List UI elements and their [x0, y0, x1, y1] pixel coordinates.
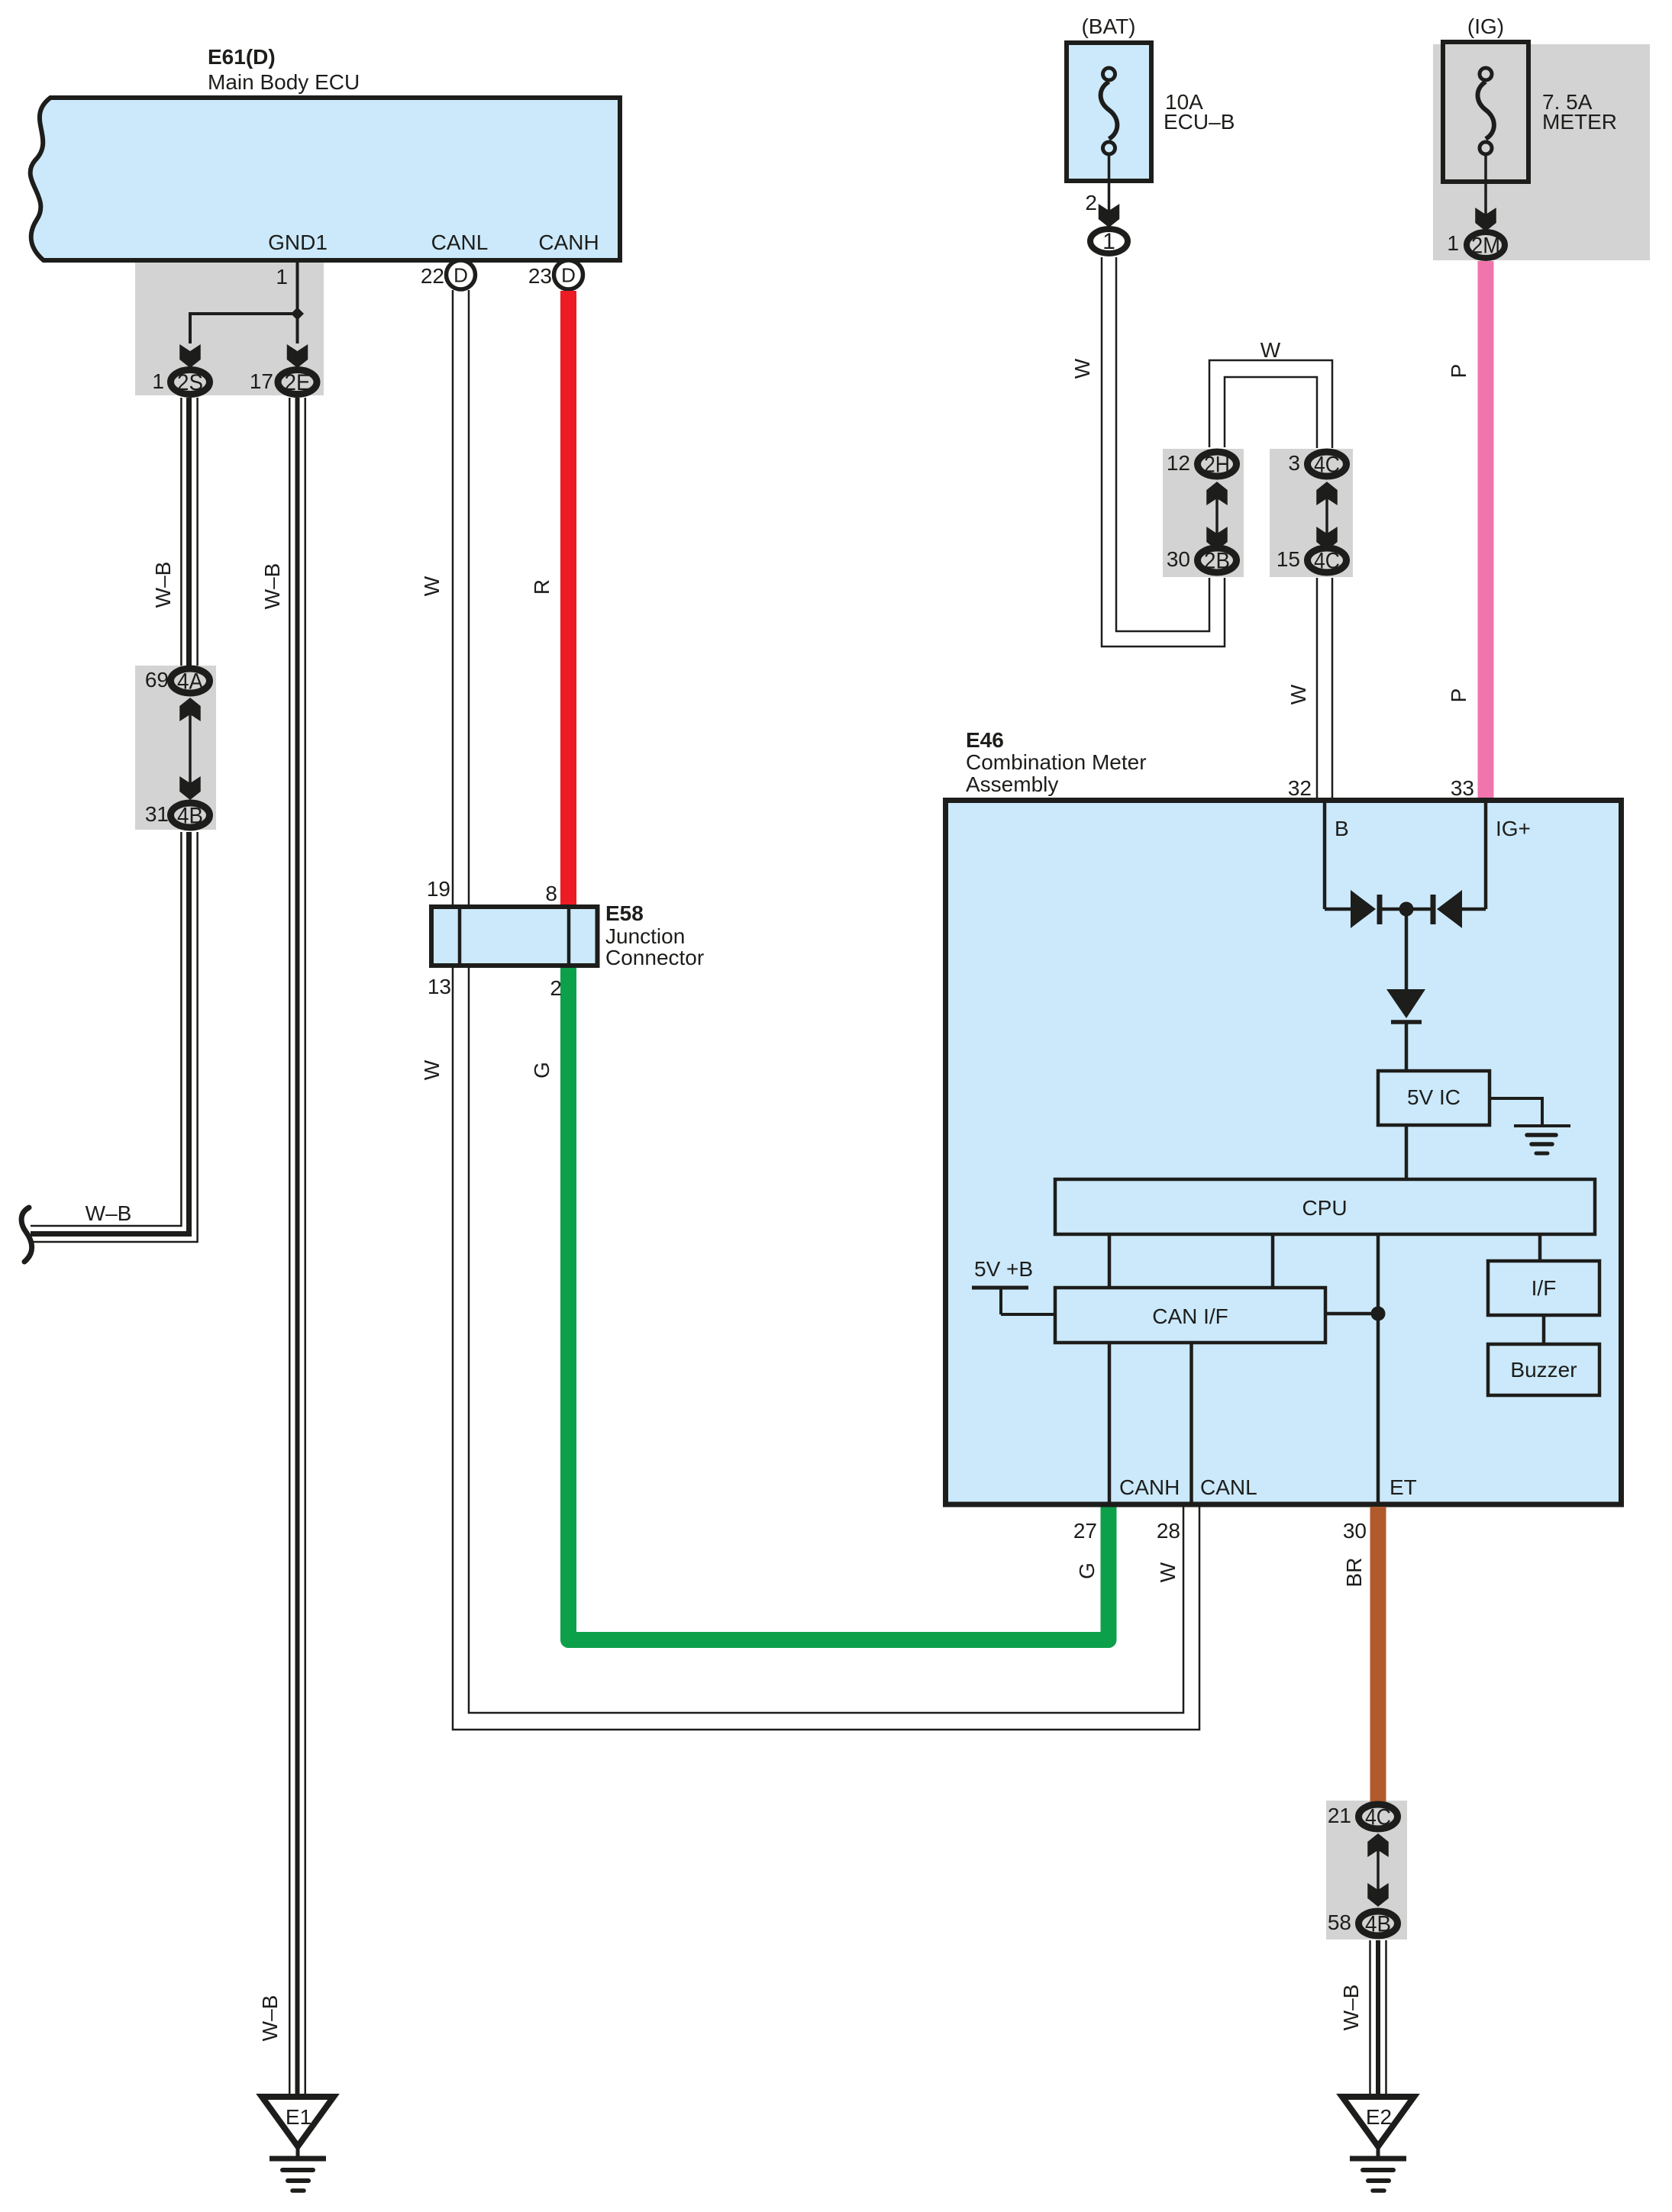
arrow down into 4B [179, 776, 201, 800]
arrow into connector 1 [1099, 204, 1120, 227]
svg-text:W: W [1156, 1562, 1180, 1582]
connector oval 2M [1467, 232, 1505, 258]
shield gray box under GND1 (2S/2E) [135, 260, 324, 395]
svg-text:33: 33 [1451, 776, 1474, 800]
arrow up into 2H [1206, 482, 1228, 505]
svg-text:R: R [530, 579, 554, 595]
svg-text:ECU–B: ECU–B [1164, 110, 1235, 134]
svg-text:1: 1 [1102, 229, 1115, 254]
E46 box [946, 801, 1622, 1505]
arrow into connector 2M [1475, 208, 1496, 231]
svg-text:B: B [1335, 817, 1349, 840]
svg-text:E61(D): E61(D) [208, 45, 276, 69]
svg-text:4C: 4C [1365, 1805, 1391, 1830]
svg-text:4A: 4A [177, 669, 203, 695]
diode D2 (from IG+) [1437, 890, 1462, 928]
svg-text:W: W [1260, 338, 1281, 362]
svg-text:27: 27 [1073, 1519, 1097, 1543]
wire G from E58 to pin 27 [569, 966, 1109, 1640]
svg-text:19: 19 [427, 877, 450, 901]
svg-text:P: P [1447, 688, 1470, 703]
CAN I/F box [1055, 1288, 1325, 1343]
fuse METER element [1478, 82, 1494, 139]
svg-text:30: 30 [1343, 1519, 1367, 1543]
wire W CANL from pin 22 to pin 28 [453, 290, 1199, 1730]
CPU box [1055, 1179, 1595, 1234]
arrow down into 2B [1206, 527, 1228, 550]
svg-text:W: W [1286, 684, 1310, 705]
svg-text:13: 13 [428, 975, 451, 998]
block E61(D) Main Body ECU [31, 98, 620, 260]
svg-text:G: G [530, 1062, 554, 1079]
svg-text:CANL: CANL [1200, 1475, 1257, 1499]
svg-text:ET: ET [1390, 1475, 1417, 1499]
junction dot on ET line [1371, 1307, 1386, 1321]
wire W-B from 2E to ground E1 [289, 398, 305, 2097]
wire 5V IC to CPU [1405, 1125, 1409, 1179]
svg-text:5V IC: 5V IC [1407, 1085, 1461, 1109]
wire W-B from 4B to ground E2 [1370, 1940, 1386, 2097]
arrow into 2S [179, 344, 201, 368]
wire CAN I/F to ET line [1325, 1312, 1378, 1316]
svg-text:22: 22 [421, 264, 444, 288]
svg-text:D: D [561, 264, 576, 287]
wire P from 2M to pin 33 [1478, 261, 1494, 803]
svg-text:W–B: W–B [260, 563, 284, 610]
svg-text:15: 15 [1277, 547, 1300, 571]
wire CANH internal [1108, 1343, 1112, 1504]
wire between 4C and 4C [1325, 498, 1328, 534]
arrow up into 4C [1367, 1833, 1389, 1857]
svg-text:5V +B: 5V +B [974, 1257, 1033, 1281]
wire W-B from 2S to 4A [181, 398, 197, 666]
shield gray box 2H/2B pair [1163, 449, 1244, 577]
svg-text:I/F: I/F [1532, 1276, 1557, 1300]
svg-text:4B: 4B [1365, 1912, 1391, 1937]
junction dot [1399, 902, 1414, 917]
svg-text:BR: BR [1342, 1558, 1366, 1588]
svg-text:31: 31 [145, 802, 169, 826]
svg-text:1: 1 [276, 265, 288, 289]
svg-text:30: 30 [1167, 547, 1190, 571]
svg-text:Combination Meter: Combination Meter [966, 750, 1147, 774]
wire to diode D3 [1405, 909, 1409, 989]
Buzzer box [1488, 1344, 1599, 1395]
wire 5V IC to internal ground [1490, 1098, 1542, 1124]
svg-text:W–B: W–B [151, 562, 175, 608]
svg-text:2E: 2E [285, 370, 311, 395]
svg-text:W: W [1070, 358, 1094, 379]
shield gray box IG fuse area [1433, 44, 1650, 260]
svg-text:2: 2 [1085, 191, 1097, 214]
pin 2 of fuse ECU-B [1108, 154, 1111, 226]
svg-text:3: 3 [1288, 451, 1300, 475]
wire I/F to Buzzer [1542, 1315, 1546, 1344]
connector oval 2E [278, 370, 317, 395]
svg-text:IG+: IG+ [1496, 817, 1531, 840]
svg-text:1: 1 [152, 369, 164, 393]
svg-text:32: 32 [1288, 776, 1312, 800]
svg-text:W–B: W–B [86, 1201, 132, 1225]
pin 22 CANL connector D [447, 260, 476, 289]
svg-text:D: D [454, 264, 468, 287]
svg-text:CAN I/F: CAN I/F [1152, 1304, 1228, 1328]
connector pair 4A/4B [171, 669, 210, 693]
svg-text:21: 21 [1328, 1804, 1351, 1827]
wire R CANH from pin 23 to E58 [560, 291, 576, 909]
svg-text:CANL: CANL [431, 231, 489, 254]
svg-text:W–B: W–B [258, 1995, 282, 2042]
arrow up into 4C [1316, 482, 1338, 505]
arrow down into 4C [1316, 527, 1338, 550]
svg-text:58: 58 [1328, 1911, 1351, 1934]
svg-text:28: 28 [1157, 1519, 1180, 1543]
arrow up into 4A [179, 698, 201, 721]
svg-text:METER: METER [1542, 110, 1617, 134]
connector oval 1 [1090, 229, 1128, 253]
svg-text:Assembly: Assembly [966, 772, 1058, 796]
wire to 5V IC [1405, 1024, 1409, 1071]
svg-text:2S: 2S [177, 370, 203, 395]
wire W from 4C to pin 32 [1317, 578, 1332, 803]
wire CPU to I/F [1538, 1234, 1542, 1261]
shield gray box 4C/4B pair bottom [1326, 1801, 1407, 1940]
svg-text:(IG): (IG) [1467, 15, 1504, 38]
I/F box [1488, 1261, 1599, 1315]
wire W from fuse ECU-B to 2B [1102, 257, 1225, 647]
ground E1 [262, 2097, 334, 2146]
svg-text:2H: 2H [1204, 453, 1230, 478]
svg-text:Buzzer: Buzzer [1510, 1358, 1577, 1382]
svg-text:Connector: Connector [605, 946, 704, 969]
svg-text:12: 12 [1167, 451, 1190, 475]
node B pin 32 [1323, 803, 1327, 909]
wire between 4C and 4B [1377, 1850, 1380, 1890]
svg-text:W: W [420, 576, 444, 596]
svg-text:CPU: CPU [1302, 1196, 1347, 1220]
svg-text:17: 17 [250, 369, 273, 393]
arrow into 2E [287, 344, 308, 368]
svg-text:69: 69 [145, 668, 169, 692]
svg-text:2: 2 [550, 976, 562, 1000]
wire BR from pin 30 to 4C [1370, 1507, 1386, 1803]
shield gray box 4C/4C pair [1270, 449, 1353, 577]
svg-text:CANH: CANH [1119, 1475, 1180, 1499]
connector oval 2S [171, 370, 210, 395]
connector pair 4C/4B bottom [1359, 1804, 1398, 1829]
svg-text:E46: E46 [966, 728, 1004, 752]
wire between 4A and 4B [189, 714, 192, 783]
svg-text:4C: 4C [1314, 453, 1340, 478]
svg-text:2B: 2B [1204, 549, 1230, 574]
svg-text:E58: E58 [605, 901, 644, 925]
svg-text:2M: 2M [1471, 234, 1500, 259]
harness break symbol [21, 1208, 32, 1262]
wire between 2H and 2B [1215, 498, 1218, 534]
svg-text:E2: E2 [1366, 2105, 1392, 2129]
diode D3 (down) [1386, 989, 1425, 1018]
svg-text:4B: 4B [177, 804, 203, 829]
svg-text:GND1: GND1 [268, 231, 328, 254]
wire CPU to ET pin 30 [1377, 1234, 1380, 1504]
svg-text:23: 23 [528, 264, 552, 288]
arrow down into 4B [1367, 1883, 1389, 1907]
connector pair 2H/2B [1198, 452, 1237, 476]
svg-text:Junction: Junction [605, 924, 685, 948]
svg-text:P: P [1447, 364, 1470, 379]
fuse ECU-B element [1101, 82, 1118, 139]
svg-text:G: G [1075, 1562, 1099, 1579]
node IG+ pin 33 [1484, 803, 1488, 909]
svg-text:CANH: CANH [538, 231, 599, 254]
junction connector E58 [431, 907, 598, 966]
svg-text:(BAT): (BAT) [1081, 15, 1135, 38]
internal ground symbol [1514, 1124, 1570, 1127]
wire diode row [1325, 908, 1486, 911]
pin 1 of fuse METER [1484, 154, 1487, 230]
wire W-B from 4B to harness break [31, 832, 181, 1226]
pin 23 CANH connector D [554, 260, 583, 289]
wires CPU to CAN I/F [1109, 1234, 1273, 1288]
svg-text:4C: 4C [1314, 549, 1340, 574]
svg-text:1: 1 [1447, 231, 1459, 255]
connector pair 4C/4C [1308, 452, 1347, 476]
wire W bridge from 2H to 4C [1209, 360, 1332, 448]
junction node dot [291, 308, 304, 321]
shield gray box 4A/4B pair [135, 666, 216, 830]
svg-text:W: W [420, 1059, 444, 1080]
ground E2 [1342, 2097, 1414, 2146]
svg-text:Main Body ECU: Main Body ECU [208, 70, 360, 94]
svg-text:W–B: W–B [1339, 1985, 1363, 2031]
svg-text:E1: E1 [286, 2105, 311, 2129]
5V IC box [1378, 1071, 1490, 1125]
svg-text:8: 8 [545, 882, 557, 905]
diode D1 (from B) [1351, 890, 1376, 928]
wire CANL internal [1189, 1343, 1193, 1504]
